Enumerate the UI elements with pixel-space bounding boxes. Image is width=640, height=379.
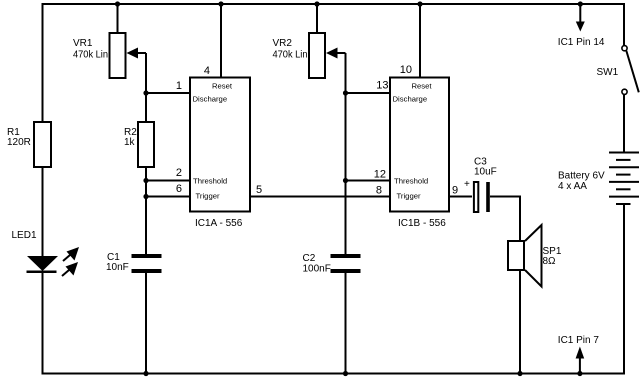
svg-text:12: 12 (374, 169, 386, 181)
potentiometer VR2 (273, 33, 338, 78)
svg-text:470k Lin: 470k Lin (73, 50, 108, 61)
node IC1A threshold junction (143, 178, 148, 183)
svg-text:VR1: VR1 (73, 38, 93, 49)
node IC1B threshold junction (343, 178, 348, 183)
svg-text:10uF: 10uF (474, 167, 497, 178)
speaker SP1 (508, 225, 562, 287)
svg-text:8Ω: 8Ω (543, 256, 557, 267)
svg-text:SW1: SW1 (597, 67, 619, 78)
wire VR1 wiper down to node (145, 53, 147, 93)
svg-text:10: 10 (400, 64, 412, 76)
svg-text:Threshold: Threshold (394, 177, 428, 186)
wire node to IC1B pin13 discharge (346, 92, 391, 94)
op-amp U2 IC1B box (390, 78, 449, 230)
node top IC1A reset (218, 1, 223, 6)
node VR1 wiper junction (143, 90, 148, 95)
wire node down to threshold node (345, 93, 347, 180)
wire IC1A pin6 trigger (146, 196, 190, 198)
node top pin14 (578, 1, 583, 6)
wire left rail upper (to R1) (42, 3, 44, 122)
svg-text:4: 4 (204, 65, 210, 77)
wire C2 to bottom rail (345, 273, 347, 374)
capacitor C1 (106, 252, 162, 273)
node top IC1B reset (417, 1, 422, 6)
wire IC1B pin9 output to C3 (449, 196, 472, 198)
wire IC1A pin2 threshold (146, 180, 190, 182)
svg-text:9: 9 (452, 185, 458, 197)
svg-text:5: 5 (256, 184, 262, 196)
svg-text:2: 2 (176, 167, 182, 179)
node top VR2 (314, 1, 319, 6)
switch SW1 (597, 46, 639, 95)
svg-text:IC1 Pin 7: IC1 Pin 7 (558, 335, 600, 346)
LED LED1 (12, 230, 80, 276)
wire VR1 wiper horizontal (136, 52, 146, 54)
wire IC1A pin4 reset feed (220, 4, 222, 78)
wire battery to bottom rail (623, 204, 625, 375)
node IC1 Pin 7 arrow (558, 335, 600, 374)
wire VR2 wiper down to node (345, 53, 347, 93)
svg-text:8: 8 (376, 185, 382, 197)
node top VR1 (115, 1, 120, 6)
capacitor C2 (303, 253, 361, 275)
wire threshold node down to C2 (345, 180, 347, 254)
wire corner down to SP1 (519, 196, 521, 242)
svg-text:10nF: 10nF (106, 262, 129, 273)
svg-text:IC1A - 556: IC1A - 556 (195, 218, 243, 229)
node IC1 Pin 14 arrow (558, 4, 605, 48)
svg-text:+: + (464, 179, 470, 190)
svg-text:Discharge: Discharge (393, 95, 428, 104)
svg-text:470k Lin: 470k Lin (273, 50, 308, 61)
wire R2 to C1 (145, 167, 147, 254)
node bottom SP1 (517, 371, 522, 376)
node bottom C2 (343, 371, 348, 376)
wire C3 to corner (490, 196, 520, 198)
svg-text:Trigger: Trigger (397, 192, 422, 201)
wire bottom rail (42, 373, 626, 375)
wire IC1A pin5 output to IC1B pin8 trigger (250, 196, 390, 198)
svg-text:1k: 1k (124, 137, 136, 148)
svg-text:Threshold: Threshold (193, 177, 227, 186)
node bottom pin7 (577, 371, 582, 376)
svg-text:6: 6 (176, 183, 182, 195)
svg-text:13: 13 (376, 80, 388, 92)
resistor R1 (7, 122, 51, 167)
wire right rail top (to SW1) (623, 3, 625, 46)
svg-text:IC1B - 556: IC1B - 556 (398, 218, 446, 229)
wire VR2 wiper horizontal (336, 52, 346, 54)
node VR2 wiper junction (343, 90, 348, 95)
svg-text:120R: 120R (7, 137, 31, 148)
wire IC1B pin12 threshold (346, 180, 391, 182)
svg-text:C2: C2 (303, 253, 316, 264)
svg-text:100nF: 100nF (303, 264, 331, 275)
wire node down to R2 (145, 93, 147, 122)
wire IC1B pin10 reset feed (419, 4, 421, 78)
svg-text:Discharge: Discharge (193, 95, 228, 104)
svg-text:1: 1 (176, 80, 182, 92)
svg-text:VR2: VR2 (273, 38, 293, 49)
wire SW1 to battery (623, 95, 625, 153)
wire SP1 to bottom rail (519, 270, 521, 374)
svg-text:4 x AA: 4 x AA (558, 181, 587, 192)
svg-text:Reset: Reset (411, 82, 432, 91)
svg-text:Reset: Reset (212, 82, 233, 91)
resistor R2 (124, 122, 154, 167)
capacitor C3 electrolytic (464, 157, 497, 213)
wire R1 to LED (42, 167, 44, 257)
node bottom C1 (143, 371, 148, 376)
wire VR2 top feed (316, 4, 318, 33)
svg-text:Battery 6V: Battery 6V (558, 171, 605, 182)
potentiometer VR1 (73, 33, 138, 78)
wire LED to bottom rail (42, 272, 44, 375)
wire top rail (42, 3, 625, 5)
wire node to IC1A pin1 discharge (146, 92, 190, 94)
op-amp U1 IC1A box (190, 78, 250, 230)
svg-text:IC1 Pin 14: IC1 Pin 14 (558, 37, 605, 48)
battery B1 6V (609, 153, 639, 205)
svg-text:LED1: LED1 (12, 230, 37, 241)
wire VR1 top feed (117, 4, 119, 33)
wire C1 to bottom rail (145, 273, 147, 374)
node IC1A trigger junction (143, 194, 148, 199)
svg-text:Trigger: Trigger (196, 192, 221, 201)
